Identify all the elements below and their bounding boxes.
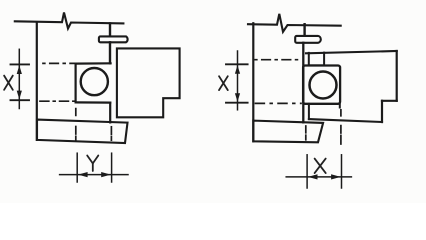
wire: notch horizontal edge [382, 100, 397, 102]
wire: pocket left edge [74, 64, 76, 103]
wire: left vertical edge of body down to base plate bottom [36, 23, 38, 140]
base plate (trapezoid, slanted right edge) [37, 120, 128, 143]
wire: clamp screw stem upper segment (right figure) [303, 24, 305, 36]
wire: pocket bottom edge [76, 101, 111, 103]
hidden line: left dashed vertical in plate x=305.8 [305, 126, 307, 140]
centerline: upper dash-dot (right figure) [255, 59, 302, 61]
wire: screw stem / bushing left edge (continuous vertical) [302, 43, 304, 123]
circle: locating pin (right figure) [310, 72, 337, 99]
lower seat right edge stub [339, 104, 341, 108]
wire: clamp screw stem upper segment [109, 23, 111, 36]
wire: clamp screw stem lower segment [109, 42, 111, 63]
bushing rectangle around pin [303, 66, 340, 104]
wire: block bottom edge (right figure) [309, 119, 382, 122]
label X of right vertical dimension [219, 76, 228, 90]
hidden line: right dashed vertical in plate x=340.9 [340, 126, 342, 144]
circle: locating pin (left figure) [81, 68, 108, 95]
wire: top edge line with break symbol, left body [15, 13, 124, 29]
dimension X (right figure, horizontal below plate) [286, 155, 351, 188]
hidden line: left dashed vertical x=75.8 [75, 109, 77, 141]
clamp screw head (rounded bar) [99, 36, 128, 42]
clamp nut (small rectangle above bushing) [309, 53, 324, 66]
wire: pocket top edge [76, 62, 111, 64]
centerline: upper dash-dot at pocket top level [43, 62, 74, 64]
hidden line: short dash right of seat [340, 110, 342, 116]
wire: left vertical edge of right body [252, 23, 254, 141]
label X of left vertical dimension [4, 76, 13, 90]
wire: block top edge (right figure) [306, 51, 397, 53]
centerline: lower dash-dot (right figure) [256, 102, 302, 104]
dimension X (left figure, vertical) [11, 49, 30, 108]
wire: top edge line with break symbol, right body [248, 14, 341, 32]
dimension X (right figure, vertical) [226, 51, 248, 110]
wire: step down from pocket bottom to base plate [109, 103, 111, 123]
label X of right bottom dimension [315, 159, 326, 174]
hidden line: right dashed vertical x=111.4 [110, 127, 112, 140]
label Y of left bottom dimension [87, 156, 98, 172]
wire: notch vertical edge [381, 101, 383, 122]
base plate (right figure) [253, 121, 323, 143]
block: right clamp block with bottom-right notch [117, 48, 180, 117]
wire: block right edge [396, 51, 398, 101]
lower seat left edge (below bushing) [308, 104, 310, 119]
clamp screw head (rounded bar, right figure) [295, 36, 321, 43]
dimension Y (left figure, horizontal below plate) [60, 153, 128, 182]
centerline: lower dash-dot at pocket bottom level [40, 100, 74, 102]
